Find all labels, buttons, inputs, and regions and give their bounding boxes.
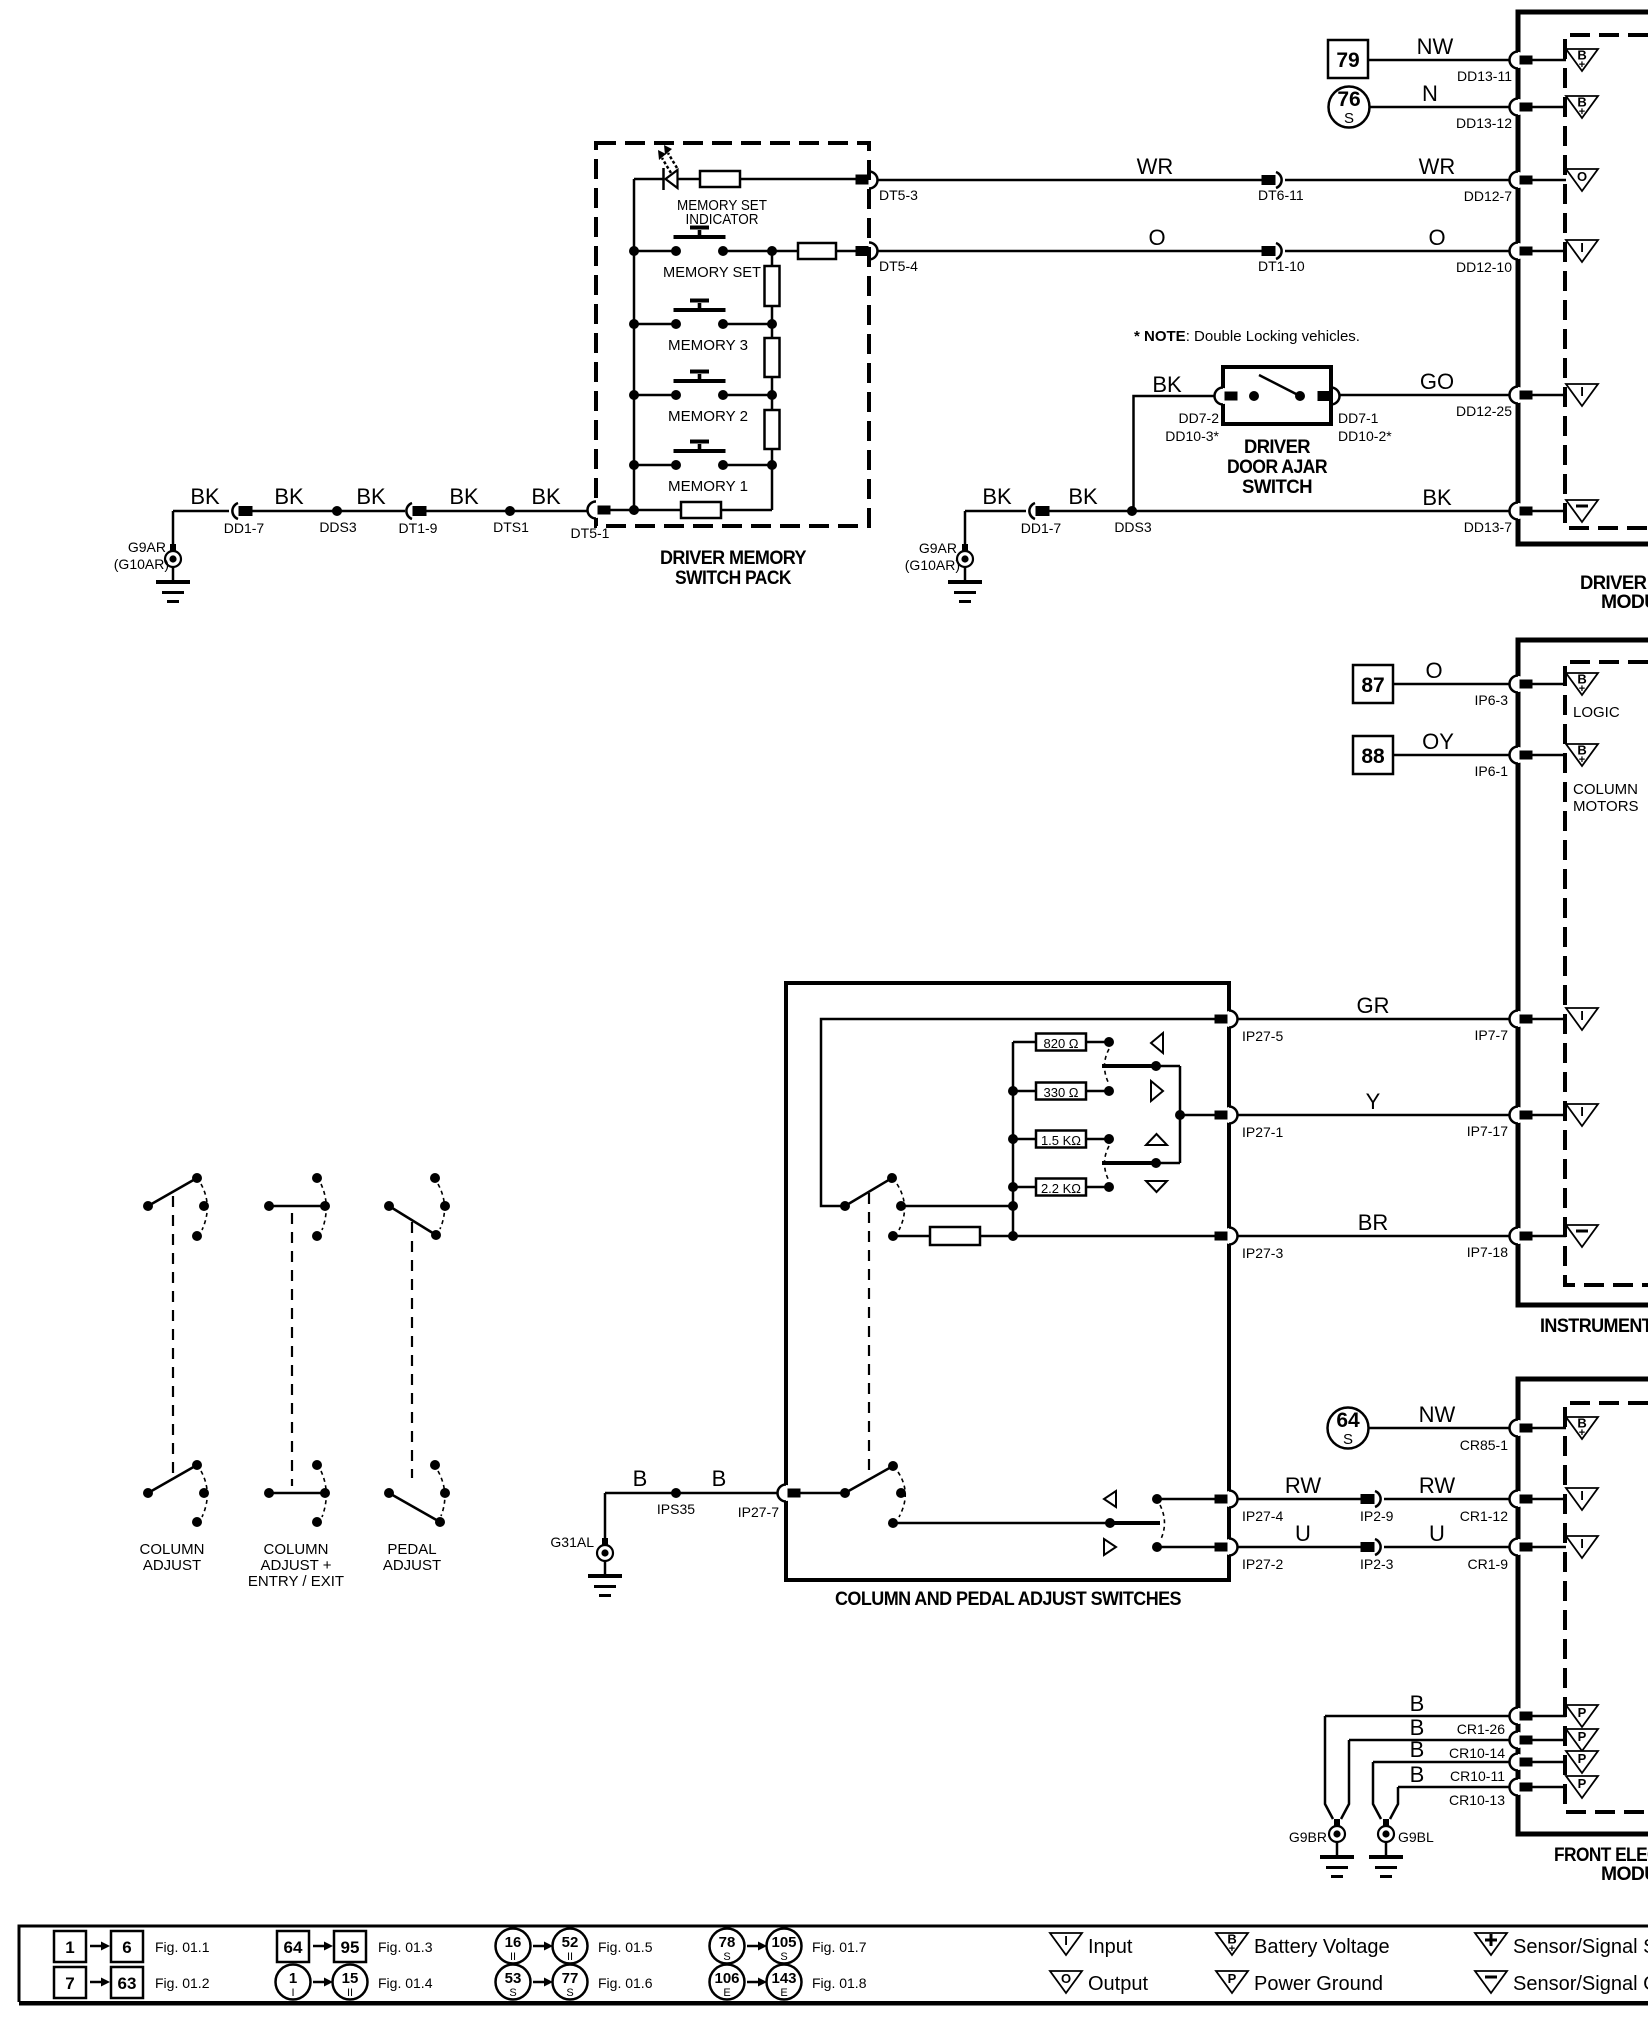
wire BK DDS3 to DT1-9 [337,510,405,513]
svg-text:1.5 KΩ: 1.5 KΩ [1041,1133,1081,1148]
svg-text:SWITCH: SWITCH [1242,477,1312,498]
wire drop CR10-11 to G9BL [1373,1762,1381,1819]
pedal adjust position switch upper [384,1173,450,1240]
svg-text:MEMORY 1: MEMORY 1 [668,478,748,495]
svg-text:63: 63 [118,1974,137,1993]
legend arrow [313,1981,324,1984]
legend connector circle 15 II [333,1965,368,2000]
memory 2 switch [671,370,728,401]
output symbol O [1566,169,1598,191]
svg-text:DD10-2*: DD10-2* [1338,428,1392,444]
svg-text:DTS1: DTS1 [493,519,529,535]
in-line connector DD1-7 right [1029,503,1049,519]
pin CR1-9 [1510,1539,1533,1556]
svg-text:BK: BK [1422,485,1452,510]
svg-text:BK: BK [449,484,479,509]
svg-text:DD10-3*: DD10-3* [1165,428,1219,444]
column adjust entry exit position switch lower [264,1460,330,1527]
pin IP27-1 [1215,1107,1239,1124]
node right rail memory 3 [767,319,777,329]
wire to input symbol [1531,1546,1566,1549]
legend connector 7 [54,1967,86,1998]
legend arrow [747,1945,758,1948]
svg-text:GR: GR [1357,993,1390,1018]
in-line connector DT1-10 [1262,243,1282,259]
svg-text:820 Ω: 820 Ω [1043,1036,1078,1051]
svg-text:DD1-7: DD1-7 [224,520,265,536]
svg-text:BK: BK [1152,372,1182,397]
svg-text:B: B [1410,1762,1425,1787]
sensor signal ground symbol [1566,500,1598,522]
svg-text:DD13-11: DD13-11 [1457,68,1512,84]
svg-text:Fig. 01.6: Fig. 01.6 [598,1975,653,1991]
svg-text:IP27-3: IP27-3 [1242,1245,1283,1261]
svg-text:BK: BK [274,484,304,509]
legend frame [19,1926,1648,2003]
svg-text:(G10AR): (G10AR) [114,556,169,572]
legend connector circle 1 I [276,1965,311,2000]
pin IP27-5 [1215,1011,1239,1028]
column adjust entry exit mechanical link [291,1213,293,1486]
svg-text:BR: BR [1358,1210,1389,1235]
column adjust position switch lower [143,1460,209,1527]
wire common feed to IP27-5 [821,1019,1217,1206]
legend connector circle 105 S [767,1929,802,1964]
svg-text:95: 95 [341,1938,360,1957]
svg-text:6: 6 [122,1938,131,1957]
node on left bus row memory 1 [629,460,639,470]
input symbol I [1566,1488,1598,1510]
svg-text:105: 105 [771,1934,796,1951]
wire to input symbol [1531,250,1566,253]
node rail 330 row [1008,1086,1018,1096]
pin DT5-4 on switch pack [856,243,878,260]
wire N from 76 to DD13-12 [1369,106,1518,109]
wire O from 87 to IP6-3 [1393,683,1518,686]
wire blade lower to gang bar [1156,1162,1180,1165]
svg-text:S: S [723,1951,730,1963]
node on left bus row memory 2 [629,390,639,400]
svg-text:SWITCH PACK: SWITCH PACK [675,568,792,589]
pedal down symbol [1146,1181,1167,1192]
pedal selector common contact [840,1488,850,1498]
battery voltage symbol B+ [1566,48,1598,72]
svg-text:S: S [509,1987,516,1999]
wire B ground to IPS35 [605,1492,676,1495]
svg-text:G9BL: G9BL [1398,1829,1434,1845]
svg-text:DD7-2: DD7-2 [1179,410,1220,426]
wire BK ground to DD1-7 [173,510,229,513]
pin DD12-25 [1510,387,1533,404]
svg-text:B: B [633,1466,648,1491]
svg-text:78: 78 [719,1934,736,1951]
svg-text:76: 76 [1337,88,1360,111]
wire to battery voltage symbol [1531,106,1566,109]
svg-text:FRONT ELECTRONIC: FRONT ELECTRONIC [1554,1845,1648,1866]
svg-text:CR1-12: CR1-12 [1460,1508,1508,1524]
pin DT5-3 on switch pack [856,172,878,189]
svg-text:BK: BK [982,484,1012,509]
wire memory 1 row [634,464,772,467]
legend connector circle 53 S [496,1965,531,2000]
svg-text:WR: WR [1137,154,1174,179]
svg-text:WR: WR [1419,154,1456,179]
svg-text:B: B [1410,1737,1425,1762]
wire to battery voltage symbol [1531,1427,1566,1430]
svg-text:PEDAL: PEDAL [387,1541,436,1558]
wire to battery voltage symbol [1531,683,1566,686]
ground G9BL [1369,1819,1403,1878]
svg-text:DRIVER DOOR: DRIVER DOOR [1580,573,1648,594]
wire U from IP2-3 to CR1-9 [1384,1546,1518,1549]
direction selector blade [1110,1521,1160,1525]
pin IP27-4 [1215,1491,1239,1508]
power ground symbol P [1566,1729,1598,1751]
svg-text:7: 7 [65,1974,74,1993]
splice DTS1 [505,506,515,516]
battery voltage symbol B+ [1566,743,1598,767]
svg-text:E: E [780,1987,787,1999]
splice DDS3 right [1127,506,1137,516]
svg-text:Fig. 01.2: Fig. 01.2 [155,1975,210,1991]
legend connector circle 143 E [767,1965,802,2000]
left arrow symbol [1104,1491,1116,1507]
svg-text:G9AR: G9AR [919,540,957,556]
column adjust mechanical link [172,1196,174,1478]
svg-text:S: S [1344,110,1354,127]
battery voltage symbol B+ [1566,1416,1598,1440]
memory 3 switch [671,299,728,330]
svg-text:BK: BK [531,484,561,509]
legend frame bottom line [19,2001,1648,2006]
resistor common unlabelled [930,1227,980,1245]
svg-text:DT5-3: DT5-3 [879,187,918,203]
pedal up symbol [1146,1134,1167,1145]
contact 1.5k [1104,1134,1114,1144]
wire to IP27-4 [1157,1498,1217,1501]
legend connector circle 16 II [496,1929,531,1964]
svg-text:COLUMN: COLUMN [263,1541,328,1558]
power ground symbol P [1566,1751,1598,1773]
svg-text:ADJUST: ADJUST [143,1557,201,1574]
wire to input symbol [1531,1018,1566,1021]
wire 1.5k row [1013,1138,1105,1141]
svg-text:Fig. 01.7: Fig. 01.7 [812,1939,867,1955]
resistor selector rail [1012,1042,1015,1236]
pedal selector blade [845,1466,893,1493]
svg-text:Fig. 01.8: Fig. 01.8 [812,1975,867,1991]
svg-text:Y: Y [1366,1089,1381,1114]
pin IP6-1 [1510,747,1533,764]
svg-text:DT5-4: DT5-4 [879,258,918,274]
svg-text:79: 79 [1336,49,1359,72]
pin IP27-7 [778,1485,801,1502]
svg-text:NW: NW [1417,34,1454,59]
pin IP27-3 [1215,1228,1239,1245]
svg-text:IP6-1: IP6-1 [1475,763,1509,779]
svg-text:IP27-7: IP27-7 [738,1504,779,1520]
svg-text:DT1-9: DT1-9 [399,520,438,536]
connector block 79 [1328,40,1368,78]
resistor 1.5 Kohm [1036,1131,1086,1148]
column switch contact position 2 [888,1231,898,1241]
svg-text:N: N [1422,81,1438,106]
svg-text:INSTRUMENT PACK: INSTRUMENT PACK [1540,1316,1648,1337]
svg-text:II: II [567,1951,573,1963]
svg-text:64: 64 [284,1938,303,1957]
gang bar vertical [1179,1066,1182,1163]
svg-text:U: U [1429,1521,1445,1546]
svg-text:IP7-7: IP7-7 [1475,1027,1509,1043]
input symbol I [1566,384,1598,406]
resistor between memory 3 and memory 2 [765,338,780,377]
svg-text:Power Ground: Power Ground [1254,1973,1383,1995]
splice circle 64 S [1328,1408,1369,1449]
svg-text:DD1-7: DD1-7 [1021,520,1062,536]
column up symbol [1151,1033,1163,1053]
svg-text:S: S [1343,1431,1353,1448]
svg-text:IP7-17: IP7-17 [1467,1123,1508,1139]
legend connector 1 [54,1931,86,1962]
svg-text:DDS3: DDS3 [1114,519,1152,535]
wire BK DTS1 to DT5-1 [510,510,588,513]
node blade upper [1151,1061,1161,1071]
wire drop CR10-14 to G9BR [1341,1740,1349,1819]
svg-text:E: E [723,1987,730,1999]
column switch common contact [840,1201,850,1211]
wire memory 3 row [634,323,772,326]
svg-text:DDS3: DDS3 [319,519,357,535]
column adjust position switch upper [143,1173,209,1241]
selector blade lower [1102,1161,1153,1165]
wire drop CR1-26 to G9BR [1325,1716,1333,1819]
svg-text:G9BR: G9BR [1289,1829,1327,1845]
legend battery voltage symbol [1216,1932,1248,1956]
wire blade upper to gang bar [1156,1065,1180,1068]
wire 2.2k row [1013,1186,1105,1189]
svg-text:IP27-5: IP27-5 [1242,1028,1283,1044]
svg-text:II: II [347,1987,353,1999]
svg-text:143: 143 [771,1970,796,1987]
svg-text:II: II [510,1951,516,1963]
node rail and switch wire [1008,1201,1018,1211]
pedal selector contact position 1 [896,1488,906,1498]
svg-text:MEMORY SET: MEMORY SET [663,264,761,281]
wire BK DT1-9 to DTS1 [425,510,510,513]
svg-text:BK: BK [356,484,386,509]
wire to pedal selector common [800,1492,845,1495]
door ajar switch contacts [1249,391,1259,401]
svg-text:Sensor/Signal Supply: Sensor/Signal Supply [1513,1936,1648,1958]
svg-text:MEMORY 3: MEMORY 3 [668,337,748,354]
wire BK from DDS3 to DD13-7 [1132,510,1518,513]
wire common resistor row [893,1235,1217,1238]
wire position2 to direction selector [893,1522,1110,1525]
pin CR1-12 [1510,1491,1533,1508]
wire B to CR10-11 [1373,1761,1518,1764]
wire WR from DT6-11 to DD12-7 [1285,179,1518,182]
svg-text:1: 1 [65,1938,74,1957]
svg-text:CR1-9: CR1-9 [1468,1556,1509,1572]
svg-text:DT6-11: DT6-11 [1258,187,1304,203]
svg-text:87: 87 [1361,674,1384,697]
svg-text:INDICATOR: INDICATOR [686,211,759,228]
in-line connector DD1-7 [232,503,252,519]
svg-text:IP27-4: IP27-4 [1242,1508,1283,1524]
svg-text:2.2 KΩ: 2.2 KΩ [1041,1181,1081,1196]
pin DD7-1 DD10-2 [1318,388,1340,405]
svg-text:MEMORY 2: MEMORY 2 [668,408,748,425]
resistor 2.2 Kohm [1036,1179,1086,1196]
wire NW from 64 to CR85-1 [1368,1427,1518,1430]
ground G9AR (G10AR) right [964,511,967,547]
power ground symbol P [1566,1776,1598,1798]
node blade lower [1151,1158,1161,1168]
wire BK ground to DD1-7 right [965,510,1026,513]
splice circle 76 S [1329,87,1370,128]
legend connector circle 106 E [710,1965,745,2000]
svg-text:S: S [780,1951,787,1963]
resistor of memory set indicator [700,171,740,187]
wire drop CR10-13 to G9BL [1390,1787,1398,1819]
svg-text:GO: GO [1420,369,1454,394]
pedal adjust position switch lower [384,1460,450,1527]
resistor between memory set and memory 3 [765,266,780,306]
node on left bus row memory set [629,246,639,256]
pin DD13-7 [1510,503,1533,520]
wire from resistor to DT5-3 [677,178,857,181]
pin CR1-26 [1510,1708,1533,1725]
svg-text:Sensor/Signal Ground: Sensor/Signal Ground [1513,1973,1648,1995]
svg-text:O: O [1148,225,1165,250]
column adjust entry exit position switch upper [264,1173,330,1241]
resistor 330 ohm [1036,1083,1086,1100]
wire O from DT5-4 to DT1-10 [877,250,1262,253]
wire RW from IP27-4 to IP2-9 [1238,1498,1363,1501]
wire B to CR1-26 [1325,1715,1518,1718]
mechanical link dashed [868,1193,870,1477]
svg-text:DT5-1: DT5-1 [571,525,610,541]
wire to power ground symbol [1531,1761,1566,1764]
svg-text:CR10-11: CR10-11 [1450,1768,1505,1784]
svg-text:RW: RW [1285,1473,1321,1498]
svg-text:Fig. 01.5: Fig. 01.5 [598,1939,653,1955]
node right rail top [767,246,777,256]
legend connector 6 [111,1931,143,1962]
node rail 1.5k row [1008,1134,1018,1144]
wire Y from IP27-1 to IP7-17 [1238,1114,1518,1117]
svg-text:DRIVER: DRIVER [1244,437,1311,458]
svg-text:MODULE: MODULE [1601,592,1648,613]
wire to battery voltage symbol [1531,754,1566,757]
svg-text:MOTORS: MOTORS [1573,798,1639,815]
node rail bottom [1008,1231,1018,1241]
svg-text:U: U [1295,1521,1311,1546]
svg-text:* NOTE: Double Locking vehicle: * NOTE: Double Locking vehicles. [1134,328,1360,345]
column switch travel arc [897,1184,905,1230]
legend input symbol [1050,1933,1082,1955]
wire to signal ground symbol [1531,510,1566,513]
svg-text:CR10-13: CR10-13 [1449,1792,1505,1808]
wire 820 ohm row [1013,1041,1105,1044]
ground G31AL [604,1493,607,1541]
column switch blade [845,1178,892,1206]
wire O from DT1-10 to DD12-10 [1285,250,1518,253]
wire GO from door ajar switch to DD12-25 [1340,394,1518,397]
wire to power ground symbol [1531,1739,1566,1742]
svg-text:CR10-14: CR10-14 [1449,1745,1505,1761]
node gang bar to IP27-1 [1175,1110,1185,1120]
front electronic module internal dashed boundary [1565,1403,1648,1812]
wire B to CR10-13 [1398,1786,1518,1789]
svg-text:DD12-10: DD12-10 [1456,259,1512,275]
legend power ground symbol [1216,1971,1248,1993]
wire NW from 79 to DD13-11 [1368,59,1518,62]
in-line connector DT6-11 [1262,172,1282,188]
svg-text:O: O [1425,658,1442,683]
svg-text:I: I [291,1987,294,1999]
svg-text:G31AL: G31AL [550,1534,594,1550]
legend connector 63 [111,1967,143,1998]
input symbol I [1566,1008,1598,1030]
svg-text:106: 106 [714,1970,739,1987]
legend connector circle 52 II [553,1929,588,1964]
legend sensor signal supply symbol [1475,1933,1507,1955]
direction contact down [1152,1542,1162,1552]
wire to battery voltage symbol [1531,59,1566,62]
instrument pack module internal dashed boundary [1565,662,1648,1285]
svg-text:Output: Output [1088,1973,1148,1995]
wire U from IP27-2 to IP2-3 [1238,1546,1363,1549]
column and pedal adjust switches enclosure [786,983,1229,1580]
svg-text:COLUMN: COLUMN [139,1541,204,1558]
svg-text:DD12-25: DD12-25 [1456,403,1512,419]
right rail of switch pack [771,251,774,510]
wire WR from DT5-3 to DT6-11 [877,179,1262,182]
legend connector 64 [277,1931,309,1962]
pin CR10-13 [1510,1779,1533,1796]
node direction selector [1105,1518,1115,1528]
power ground symbol P [1566,1705,1598,1727]
left bus wire inside switch pack [633,179,636,510]
wire to input symbol [1531,394,1566,397]
node on left bus row memory 3 [629,319,639,329]
wire BK DD1-7 to DDS3 right [1048,510,1132,513]
svg-text:Fig. 01.4: Fig. 01.4 [378,1975,433,1991]
svg-text:DRIVER MEMORY: DRIVER MEMORY [660,548,807,569]
pin IP6-3 [1510,676,1533,693]
battery voltage symbol B+ [1566,95,1598,119]
svg-text:IP27-1: IP27-1 [1242,1124,1283,1140]
svg-text:IP7-18: IP7-18 [1467,1244,1508,1260]
legend arrow [90,1945,101,1948]
pin IP7-18 [1510,1228,1533,1245]
column switch blade pivot [887,1173,897,1183]
svg-text:53: 53 [505,1970,522,1987]
svg-text:Fig. 01.3: Fig. 01.3 [378,1939,433,1955]
in-line connector IP2-3 [1361,1539,1381,1555]
direction selector travel arc [1160,1505,1165,1541]
svg-text:CR1-26: CR1-26 [1457,1721,1505,1737]
selector arc upper [1105,1049,1110,1084]
svg-text:ENTRY / EXIT: ENTRY / EXIT [248,1573,344,1590]
svg-text:DOOR AJAR: DOOR AJAR [1227,457,1328,478]
input symbol I [1566,1104,1598,1126]
driver memory switch pack dashed enclosure [596,143,869,526]
svg-text:IPS35: IPS35 [657,1501,695,1517]
wire LED row [634,178,663,181]
svg-text:IP2-9: IP2-9 [1360,1508,1394,1524]
